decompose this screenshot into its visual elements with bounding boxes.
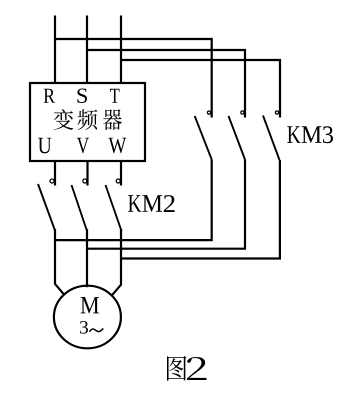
contact blade KM2 pole 2 <box>72 185 88 231</box>
wire: KM3 pole 1 return to node U <box>55 160 212 241</box>
motor label digit 3 <box>80 321 88 334</box>
wire: U output stub <box>54 161 56 186</box>
motor M1 circle <box>54 286 121 349</box>
wire: node U down to motor funnel <box>55 229 65 295</box>
wire: phase S supply drop <box>86 16 88 84</box>
contact blade KM3 pole 1 <box>195 116 212 160</box>
wire: node W down to motor funnel <box>112 229 121 295</box>
wire: phase T supply drop <box>120 16 122 84</box>
contact blade KM3 pole 3 <box>263 116 280 161</box>
label char 变 <box>54 109 74 130</box>
contact circle KM3 pole 1 <box>207 111 210 114</box>
wire: phase R supply drop <box>54 16 56 84</box>
wire: branch S to KM3 pole 2 <box>87 50 245 118</box>
pin label U <box>38 138 51 154</box>
label KM3 digit 3 <box>323 126 333 143</box>
contact circle KM2 pole 1 <box>50 179 54 183</box>
contact circle KM3 pole 3 <box>275 111 278 114</box>
contact blade KM2 pole 1 <box>38 184 55 231</box>
inverter U1 变频器 box <box>30 83 145 161</box>
pin label V <box>77 138 89 154</box>
caption char 图 <box>167 356 186 381</box>
label KM2 digit 2 <box>164 195 175 212</box>
label KM2 letter M <box>142 195 162 212</box>
contact circle KM3 pole 2 <box>241 111 244 114</box>
contact circle KM2 pole 3 <box>116 179 120 183</box>
wire: KM3 pole 3 return to node W <box>121 160 280 259</box>
caption digit 2 <box>187 357 206 380</box>
pin label R <box>44 89 55 103</box>
label char 频 <box>77 109 97 130</box>
pin label S <box>77 88 87 103</box>
wire: V output stub <box>86 161 88 186</box>
label KM3 letter M <box>302 126 322 143</box>
contact circle KM2 pole 2 <box>83 179 87 183</box>
contact blade KM2 pole 3 <box>106 185 122 231</box>
contact blade KM3 pole 2 <box>229 116 246 160</box>
motor label tilde <box>90 328 104 331</box>
pin label T <box>110 89 119 103</box>
wire: node V down to motor <box>86 229 88 287</box>
label KM2 letter K <box>128 195 141 212</box>
wire: W output stub <box>120 161 122 186</box>
motor label M <box>81 297 99 313</box>
label KM3 letter K <box>287 126 300 143</box>
wire: KM3 pole 2 return to node V <box>87 160 245 249</box>
wire: branch T to KM3 pole 3 <box>121 60 280 118</box>
wire: branch R to KM3 pole 1 <box>55 39 212 118</box>
pin label W <box>108 138 126 154</box>
label char 器 <box>103 109 122 130</box>
